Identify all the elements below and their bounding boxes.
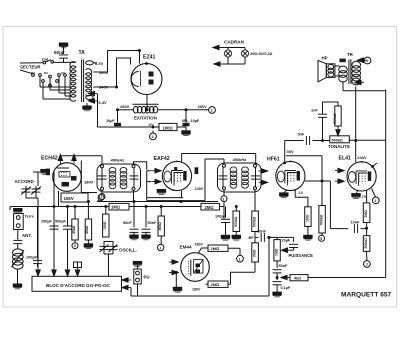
svg-text:5nF: 5nF <box>298 132 305 136</box>
svg-text:2MΩ: 2MΩ <box>211 246 220 251</box>
svg-text:RA: RA <box>44 71 48 75</box>
svg-text:1MΩ: 1MΩ <box>111 205 120 210</box>
svg-text:340V: 340V <box>99 85 109 90</box>
svg-text:BF: BF <box>249 235 255 240</box>
svg-text:30V: 30V <box>287 149 294 154</box>
svg-text:100pF: 100pF <box>215 215 227 219</box>
svg-text:10nF: 10nF <box>257 230 267 234</box>
svg-text:CADRAN: CADRAN <box>224 40 245 45</box>
svg-text:110: 110 <box>31 71 36 75</box>
svg-text:40kΩ: 40kΩ <box>72 225 76 234</box>
svg-text:50nF: 50nF <box>123 221 133 225</box>
svg-text:OSCILL.: OSCILL. <box>119 248 137 253</box>
svg-text:1: 1 <box>101 195 103 199</box>
svg-text:MARQUETT 657: MARQUETT 657 <box>341 292 392 299</box>
svg-text:500µF: 500µF <box>55 220 67 224</box>
svg-text:EL41: EL41 <box>339 155 352 161</box>
svg-text:2MΩ: 2MΩ <box>211 282 220 287</box>
svg-text:ACCORD: ACCORD <box>15 179 34 184</box>
svg-text:180V: 180V <box>195 242 204 246</box>
svg-text:3: 3 <box>74 244 76 248</box>
svg-text:1: 1 <box>223 197 225 201</box>
svg-text:40kΩ: 40kΩ <box>85 225 89 234</box>
svg-text:-6V: -6V <box>148 123 154 127</box>
svg-text:(m): (m) <box>42 57 49 62</box>
svg-text:480kHz: 480kHz <box>232 157 247 162</box>
svg-text:HF61: HF61 <box>267 157 280 163</box>
svg-text:500kΩ: 500kΩ <box>253 216 257 227</box>
svg-text:SECTEUR: SECTEUR <box>20 65 41 70</box>
svg-text:480kHz: 480kHz <box>110 158 125 163</box>
svg-text:10µF: 10µF <box>191 119 200 123</box>
svg-text:500kΩ: 500kΩ <box>319 214 323 225</box>
svg-text:2MΩ: 2MΩ <box>252 249 256 257</box>
svg-text:250µF: 250µF <box>41 220 53 224</box>
svg-text:0,1µF: 0,1µF <box>281 286 291 290</box>
svg-text:1MΩ: 1MΩ <box>275 248 279 256</box>
svg-text:PU: PU <box>144 275 150 280</box>
svg-text:180V: 180V <box>84 180 94 185</box>
svg-text:100Ω: 100Ω <box>103 221 107 230</box>
svg-text:100Ω: 100Ω <box>163 125 173 130</box>
svg-text:10µF: 10µF <box>106 119 115 123</box>
svg-text:EZ41: EZ41 <box>143 55 156 61</box>
svg-text:280V: 280V <box>120 104 130 109</box>
svg-text:20µF: 20µF <box>282 239 291 243</box>
svg-text:500kΩ: 500kΩ <box>333 113 337 124</box>
svg-text:140V: 140V <box>195 187 204 191</box>
svg-text:260V: 260V <box>99 70 109 75</box>
svg-text:ANT.: ANT. <box>22 233 32 238</box>
svg-text:EXITATION: EXITATION <box>134 116 157 121</box>
svg-text:TR: TR <box>347 52 354 57</box>
svg-text:EM44: EM44 <box>180 245 192 250</box>
svg-text:-1V: -1V <box>298 191 304 195</box>
svg-text:5: 5 <box>320 237 322 241</box>
svg-text:1nF: 1nF <box>311 109 318 113</box>
svg-text:-7V: -7V <box>361 195 367 199</box>
svg-text:50nF: 50nF <box>279 264 289 268</box>
svg-text:6RL: 6RL <box>182 119 188 123</box>
svg-text:2MΩ: 2MΩ <box>205 205 214 210</box>
svg-text:1MΩ: 1MΩ <box>305 214 309 222</box>
svg-text:2MΩ: 2MΩ <box>364 210 368 218</box>
svg-text:100pF: 100pF <box>26 256 38 260</box>
svg-text:1: 1 <box>374 199 376 203</box>
svg-text:TA: TA <box>79 50 86 56</box>
svg-text:EAF42: EAF42 <box>154 156 170 162</box>
svg-text:6,3V: 6,3V <box>95 61 104 66</box>
svg-text:1: 1 <box>159 246 161 250</box>
svg-text:PUISSANCE: PUISSANCE <box>289 253 314 258</box>
svg-text:500kΩ: 500kΩ <box>364 238 368 249</box>
svg-text:500kΩ: 500kΩ <box>234 216 238 227</box>
svg-text:Terre: Terre <box>25 213 35 218</box>
svg-text:6,3V: 6,3V <box>99 100 108 105</box>
svg-text:50nF: 50nF <box>54 50 65 55</box>
svg-text:165V: 165V <box>64 196 74 201</box>
svg-text:260V: 260V <box>198 104 208 109</box>
svg-text:500kΩ: 500kΩ <box>332 138 343 142</box>
svg-text:10nF: 10nF <box>351 221 361 225</box>
svg-text:200L5V/0,3A: 200L5V/0,3A <box>250 52 273 56</box>
svg-text:4kΩ: 4kΩ <box>294 277 301 281</box>
svg-text:180V: 180V <box>192 287 201 291</box>
svg-text:40kΩ: 40kΩ <box>158 222 162 231</box>
svg-text:240V: 240V <box>357 155 367 160</box>
svg-text:ECH42: ECH42 <box>41 156 58 162</box>
svg-text:TONALITE: TONALITE <box>328 144 350 149</box>
svg-text:HP: HP <box>322 56 328 61</box>
svg-text:BLOC D'ACCORD GO-PO-OC: BLOC D'ACCORD GO-PO-OC <box>46 283 111 288</box>
svg-text:50nF: 50nF <box>148 221 158 225</box>
